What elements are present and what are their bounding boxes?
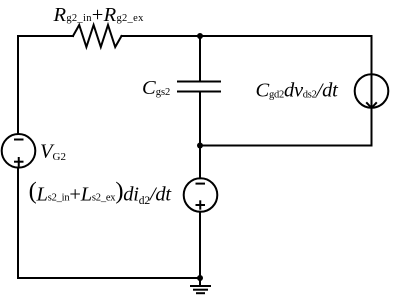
wire middle vertical (node to source): [199, 146, 201, 179]
node A (top junction): [197, 33, 203, 39]
wire middle vertical (capacitor to node): [199, 92, 201, 146]
capacitor Cgs2: [178, 82, 220, 92]
wire left vertical lower: [17, 168, 19, 278]
voltage source (Ls2_in+Ls2_ex)did2/dt: [184, 178, 218, 212]
resistor Rg2_in+Rg2_ex: [73, 25, 122, 47]
node B (middle junction): [197, 143, 203, 149]
wire left vertical upper: [17, 36, 19, 134]
ground: [190, 278, 211, 293]
wire bottom: [18, 277, 200, 279]
wire middle vertical lower: [199, 212, 201, 278]
wire middle horizontal: [200, 145, 372, 147]
wire right vertical upper: [371, 36, 373, 74]
wire middle vertical top (node to capacitor): [199, 36, 201, 81]
wire top-left segment: [18, 35, 73, 37]
voltage source VG2: [2, 134, 36, 168]
wire top-right segment: [122, 35, 372, 37]
node C (ground junction): [197, 275, 203, 281]
dependent current source Cgd2 dvds2/dt: [355, 74, 389, 108]
svg-text:Cgd2dvds2/dt: Cgd2dvds2/dt: [256, 80, 340, 102]
wire right vertical lower: [371, 108, 373, 146]
